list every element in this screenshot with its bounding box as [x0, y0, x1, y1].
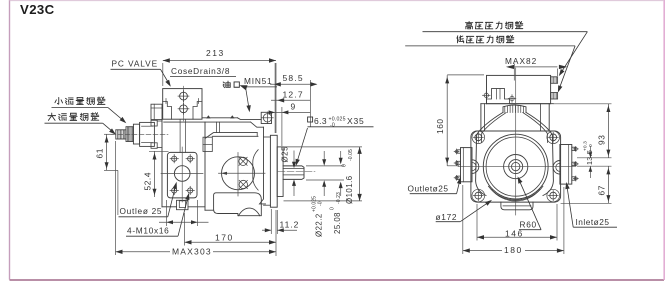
right pad stub 2: [572, 162, 576, 165]
valve cap castle profile: [487, 89, 510, 104]
outlet flange plate: [167, 152, 197, 198]
svg-text:0: 0: [342, 164, 348, 167]
svg-text:Ø25: Ø25: [281, 146, 290, 163]
bolt corner arcs: [472, 189, 485, 202]
svg-text:PC VALVE: PC VALVE: [112, 59, 159, 69]
svg-text:ø172: ø172: [436, 212, 458, 222]
bottom bump arc: [239, 208, 260, 216]
svg-text:Outleø 25: Outleø 25: [120, 206, 163, 216]
flow adjusting screws assembly: [116, 130, 126, 139]
barrel right edge: [260, 127, 266, 204]
barrel circle (rotating group): [222, 157, 255, 190]
svg-text:160: 160: [435, 118, 445, 134]
valve block bolt (upper): [180, 92, 188, 100]
svg-text:4-M10x16: 4-M10x16: [127, 226, 170, 236]
valve block right bracket: [193, 102, 202, 120]
svg-text:+0.3: +0.3: [583, 141, 589, 151]
svg-text:13.5: 13.5: [585, 150, 594, 165]
svg-text:58.5: 58.5: [283, 73, 304, 83]
serrated clamp band: [503, 105, 526, 113]
outlet flange bolt BL: [172, 188, 177, 193]
shaft centerline: [278, 171, 315, 173]
label low pressure adjust (CJK): [457, 36, 464, 43]
svg-text:213: 213: [206, 48, 225, 58]
mounting flange plate: [270, 135, 277, 207]
svg-text:6.3: 6.3: [314, 116, 327, 126]
svg-text:-0: -0: [330, 123, 335, 129]
barrel circle centerlines: [219, 172, 266, 174]
outlet port circle: [174, 166, 190, 182]
svg-text:0: 0: [330, 207, 336, 210]
svg-text:Ø101.6: Ø101.6: [345, 175, 354, 204]
left pad stub 3: [457, 176, 461, 179]
outlet flange centerlines: [161, 173, 203, 175]
svg-text:61: 61: [95, 148, 105, 158]
right pad stub 3: [572, 177, 576, 180]
flange bolt BL: [475, 192, 482, 199]
gable housing right outer slope: [526, 113, 553, 196]
upper body block: [481, 103, 553, 105]
spring chamber step: [203, 137, 212, 151]
flange bolt BR: [550, 192, 557, 199]
svg-text:Outletø25: Outletø25: [408, 183, 449, 193]
left port pad: [461, 148, 473, 182]
finish mark triangle 1: [206, 115, 211, 118]
left port semicircle: [472, 160, 479, 174]
gable housing left outer slope: [476, 113, 503, 196]
right port semicircle: [553, 161, 560, 175]
svg-text:MAX303: MAX303: [172, 246, 212, 256]
svg-text:9: 9: [291, 102, 296, 112]
svg-text:170: 170: [215, 233, 234, 243]
page border frame: [9, 0, 11, 280]
left pad stub 1: [457, 150, 461, 153]
valve block center line: [183, 86, 185, 121]
gable housing left inner slope: [482, 113, 507, 143]
outlet flange bolt BR: [188, 188, 193, 193]
svg-text:0: 0: [588, 144, 594, 147]
svg-text:X35: X35: [347, 116, 365, 126]
left pad stub 2: [457, 161, 461, 164]
pressure adjust screw (low): [551, 93, 558, 100]
pressure adjust screw (high): [551, 77, 558, 84]
label small flow adjust (CJK): [55, 97, 63, 104]
view centerlines: [515, 68, 517, 215]
compensator valve cap: [487, 75, 551, 103]
dim 180: [463, 250, 564, 252]
label oil port (CJK) MIN51: [223, 81, 230, 88]
pilot boss circles: [483, 134, 548, 199]
svg-text:Ø22.2: Ø22.2: [315, 213, 324, 237]
shaft ext lines: [306, 165, 344, 167]
valve block bolt (lower): [180, 105, 188, 113]
bottom tab: [501, 202, 533, 210]
oil port fitting: [261, 112, 271, 123]
svg-text:MIN51: MIN51: [244, 76, 272, 86]
label large flow adjust (CJK): [48, 113, 56, 120]
shaft relief notch: [253, 150, 258, 190]
svg-text:-0.05: -0.05: [348, 149, 354, 161]
svg-text:52.4: 52.4: [143, 172, 153, 191]
barrel housing: [204, 122, 206, 207]
small flange dim arrows: [159, 221, 209, 223]
skirt arc inner: [492, 190, 540, 202]
svg-text:180: 180: [504, 245, 523, 255]
pilot boss: [277, 147, 283, 197]
drain boss under housing: [177, 200, 189, 209]
internal passage lines: [179, 120, 181, 153]
outlet flange bolt TL: [172, 156, 177, 161]
svg-text:67: 67: [597, 185, 607, 195]
note square key 6.3 X35: [308, 117, 313, 122]
flange bolt TR: [550, 134, 557, 141]
gable housing right inner slope: [523, 113, 548, 143]
cap left bolt: [484, 93, 488, 97]
PC valve block: [163, 89, 202, 120]
skirt arc outer: [489, 186, 543, 200]
svg-text:-0: -0: [318, 201, 324, 206]
label high pressure adjust (CJK): [465, 21, 472, 28]
svg-text:Inletø25: Inletø25: [576, 217, 610, 227]
top cover plate: [202, 117, 238, 119]
svg-text:-0.23: -0.23: [336, 192, 342, 204]
shaft: [283, 166, 304, 180]
svg-text:CoseDrain3/8: CoseDrain3/8: [171, 66, 230, 76]
barrel bottom box: [214, 193, 262, 216]
mounting flange square: [471, 131, 561, 202]
right port pad: [560, 145, 572, 185]
screw axis centerline: [111, 133, 168, 135]
svg-text:93: 93: [597, 135, 607, 145]
barrel screw A: [239, 157, 247, 165]
svg-text:12.7: 12.7: [283, 90, 304, 100]
svg-text:MAX82: MAX82: [505, 56, 537, 66]
right pad stub 1: [572, 147, 576, 150]
outlet flange bolt TR: [188, 156, 193, 161]
flange bolt TL: [475, 134, 482, 141]
finish mark triangle 2: [230, 115, 235, 118]
control housing body: [161, 120, 163, 207]
svg-text:11.2: 11.2: [280, 219, 300, 229]
svg-text:25.08: 25.08: [333, 212, 342, 234]
valve block left bracket: [163, 102, 172, 120]
svg-text:146: 146: [505, 228, 524, 238]
svg-text:V23C: V23C: [20, 2, 55, 17]
barrel screw B: [239, 180, 247, 188]
housing top tower: [151, 104, 162, 119]
dim MAX303: [116, 251, 277, 253]
cap right bolt: [510, 96, 514, 100]
